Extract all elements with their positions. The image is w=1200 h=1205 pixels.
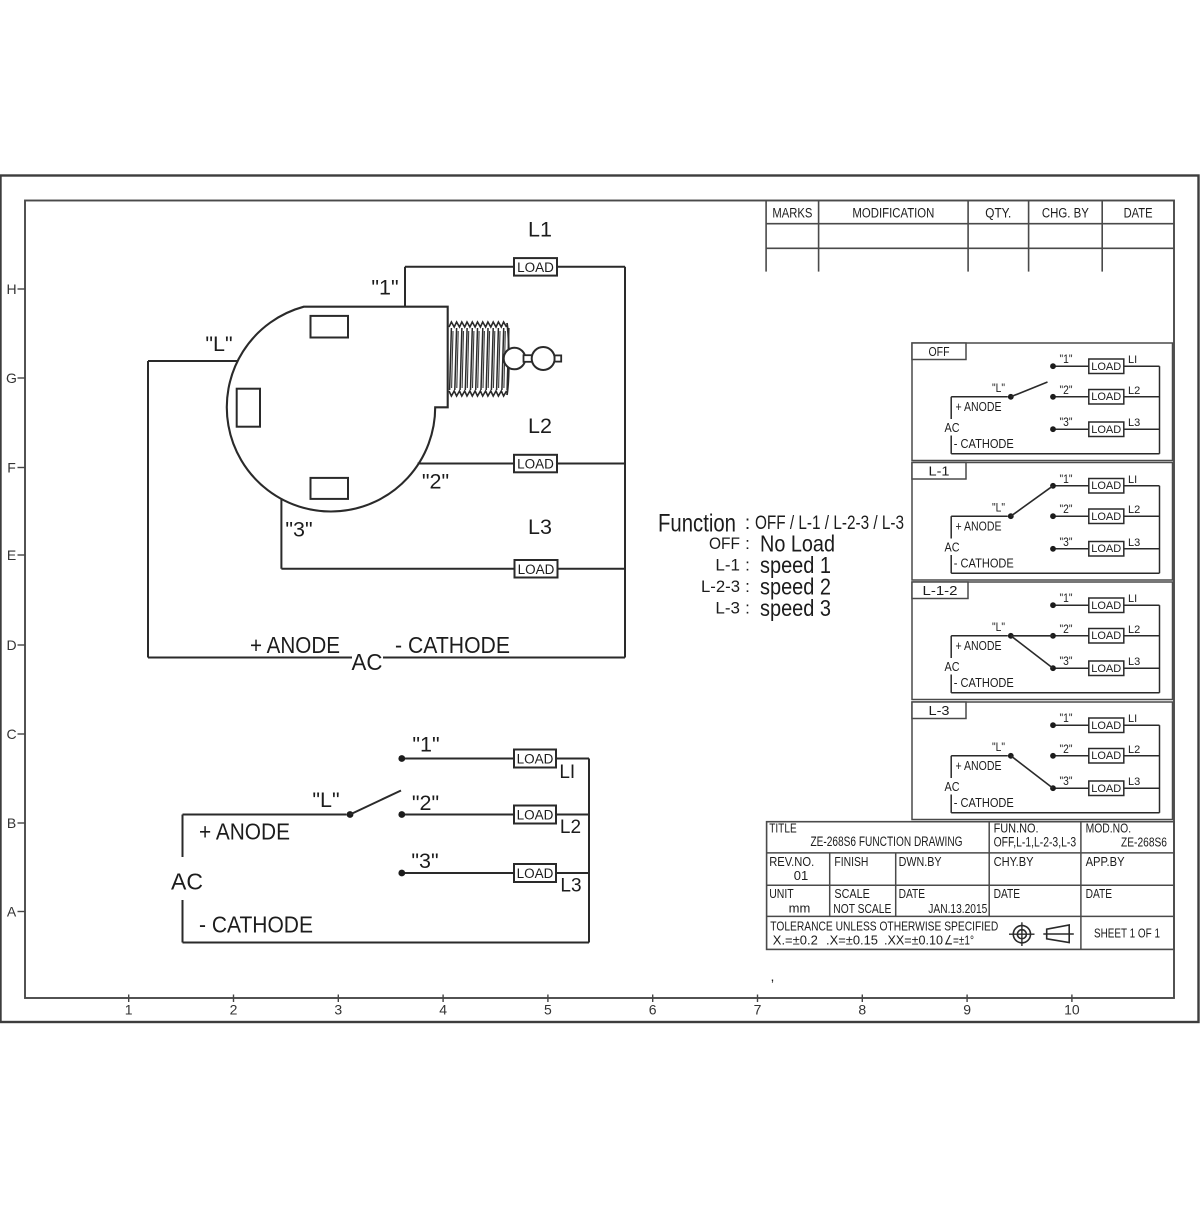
svg-text:APP.BY: APP.BY xyxy=(1086,855,1126,869)
svg-text:mm: mm xyxy=(789,901,811,916)
svg-text:MOD.NO.: MOD.NO. xyxy=(1086,822,1132,836)
svg-text:"L": "L" xyxy=(312,788,339,812)
svg-text:LOAD: LOAD xyxy=(1091,480,1121,492)
svg-text:CHG. BY: CHG. BY xyxy=(1042,205,1089,220)
svg-text:- CATHODE: - CATHODE xyxy=(395,632,510,658)
svg-text::: : xyxy=(745,534,750,553)
svg-text:LOAD: LOAD xyxy=(1091,543,1121,555)
svg-text:DATE: DATE xyxy=(994,887,1021,901)
svg-text:+ ANODE: + ANODE xyxy=(956,638,1002,653)
svg-text:3: 3 xyxy=(334,1002,342,1018)
svg-text:CHY.BY: CHY.BY xyxy=(994,855,1035,869)
svg-text:DWN.BY: DWN.BY xyxy=(899,855,943,869)
svg-text:"2": "2" xyxy=(412,791,439,815)
svg-text:L1: L1 xyxy=(528,218,552,242)
svg-text:L-1: L-1 xyxy=(929,464,950,479)
svg-text:DATE: DATE xyxy=(1086,887,1113,901)
svg-text:NOT SCALE: NOT SCALE xyxy=(833,901,891,916)
svg-text:REV.NO.: REV.NO. xyxy=(769,855,814,869)
svg-text:1: 1 xyxy=(125,1002,133,1018)
svg-text:DATE: DATE xyxy=(899,887,926,901)
svg-text:+ ANODE: + ANODE xyxy=(956,519,1002,534)
svg-text:LI: LI xyxy=(1128,713,1137,725)
svg-text:"1": "1" xyxy=(412,733,439,757)
svg-text:TITLE: TITLE xyxy=(769,822,797,836)
svg-text:+ ANODE: + ANODE xyxy=(199,819,290,845)
svg-text:L2: L2 xyxy=(528,414,552,438)
svg-text::: : xyxy=(745,598,750,617)
svg-text:LI: LI xyxy=(1128,354,1137,366)
svg-text:"2": "2" xyxy=(1060,502,1073,516)
svg-text:LOAD: LOAD xyxy=(517,260,554,275)
svg-text:- CATHODE: - CATHODE xyxy=(199,912,313,938)
svg-text:LOAD: LOAD xyxy=(1091,424,1121,436)
svg-text:QTY.: QTY. xyxy=(985,205,1011,220)
svg-text:speed 3: speed 3 xyxy=(760,595,831,621)
svg-text:+ ANODE: + ANODE xyxy=(250,632,340,658)
svg-text:SCALE: SCALE xyxy=(834,887,870,901)
svg-text:10: 10 xyxy=(1064,1002,1080,1018)
svg-text:LOAD: LOAD xyxy=(1091,663,1121,675)
svg-text:LOAD: LOAD xyxy=(1091,600,1121,612)
svg-text:LI: LI xyxy=(1128,593,1137,605)
svg-text:L-1-2: L-1-2 xyxy=(923,583,958,598)
svg-text:"L": "L" xyxy=(992,740,1005,754)
svg-text:X.=±0.2: X.=±0.2 xyxy=(773,932,818,947)
svg-text:FINISH: FINISH xyxy=(834,855,868,869)
svg-text:OFF: OFF xyxy=(709,534,740,553)
svg-text:L-1: L-1 xyxy=(715,556,740,575)
svg-text:AC: AC xyxy=(352,649,383,675)
svg-text:9: 9 xyxy=(963,1002,971,1018)
svg-text:DATE: DATE xyxy=(1124,205,1153,220)
svg-text:LOAD: LOAD xyxy=(518,562,555,577)
svg-text:"3": "3" xyxy=(1060,415,1073,429)
svg-text:6: 6 xyxy=(649,1002,657,1018)
svg-text:7: 7 xyxy=(754,1002,762,1018)
svg-text:AC: AC xyxy=(945,659,960,674)
svg-text:- CATHODE: - CATHODE xyxy=(954,676,1014,690)
svg-text:L-3: L-3 xyxy=(929,703,950,718)
svg-text:D: D xyxy=(6,637,16,653)
svg-text:L3: L3 xyxy=(1128,417,1140,429)
svg-text:LOAD: LOAD xyxy=(1091,750,1121,762)
svg-text:+ ANODE: + ANODE xyxy=(956,399,1002,414)
svg-text::: : xyxy=(745,556,750,575)
svg-text:5: 5 xyxy=(544,1002,552,1018)
svg-text:G: G xyxy=(6,370,17,386)
svg-text:"3": "3" xyxy=(1060,774,1073,788)
svg-text:01: 01 xyxy=(794,868,808,883)
svg-text:"1": "1" xyxy=(1060,591,1073,605)
svg-text:LOAD: LOAD xyxy=(1091,391,1121,403)
svg-text:E: E xyxy=(7,547,16,563)
svg-text:"1": "1" xyxy=(1060,352,1073,366)
svg-text:AC: AC xyxy=(945,539,960,554)
svg-text:+ ANODE: + ANODE xyxy=(956,758,1002,773)
svg-text:JAN.13.2015: JAN.13.2015 xyxy=(928,901,987,916)
svg-text:L3: L3 xyxy=(1128,776,1140,788)
svg-text:"2": "2" xyxy=(1060,383,1073,397)
svg-text:L3: L3 xyxy=(528,515,552,539)
svg-text:OFF,L-1,L-2-3,L-3: OFF,L-1,L-2-3,L-3 xyxy=(994,834,1077,849)
svg-text:LOAD: LOAD xyxy=(517,866,554,881)
svg-text:OFF: OFF xyxy=(929,344,950,359)
svg-text:LI: LI xyxy=(1128,474,1137,486)
svg-text:LOAD: LOAD xyxy=(1091,720,1121,732)
svg-text:∠=±1°: ∠=±1° xyxy=(944,932,974,947)
svg-text:LOAD: LOAD xyxy=(1091,783,1121,795)
svg-text:L-3: L-3 xyxy=(715,598,740,617)
svg-text:MARKS: MARKS xyxy=(772,205,812,220)
svg-text:AC: AC xyxy=(945,420,960,435)
svg-text:F: F xyxy=(7,460,16,476)
svg-text:- CATHODE: - CATHODE xyxy=(954,556,1014,570)
svg-text:H: H xyxy=(6,281,16,297)
svg-text:"1": "1" xyxy=(371,276,398,300)
svg-text:LI: LI xyxy=(559,762,575,783)
svg-text:C: C xyxy=(6,726,16,742)
svg-text:"L": "L" xyxy=(205,332,232,356)
svg-text:"L": "L" xyxy=(992,501,1005,515)
svg-text:"L": "L" xyxy=(992,381,1005,395)
svg-text:LOAD: LOAD xyxy=(517,457,554,472)
svg-text:L3: L3 xyxy=(1128,656,1140,668)
svg-text:"3": "3" xyxy=(285,518,312,542)
svg-text:"3": "3" xyxy=(1060,535,1073,549)
svg-text:AC: AC xyxy=(945,779,960,794)
svg-text:AC: AC xyxy=(171,869,203,895)
svg-text:UNIT: UNIT xyxy=(769,887,794,901)
svg-text:L2: L2 xyxy=(1128,385,1140,397)
svg-text:4: 4 xyxy=(439,1002,447,1018)
svg-text:L2: L2 xyxy=(1128,504,1140,516)
svg-text:ZE-268S6 FUNCTION DRAWING: ZE-268S6 FUNCTION DRAWING xyxy=(811,834,963,849)
svg-text:.XX=±0.10: .XX=±0.10 xyxy=(884,932,943,947)
svg-text:L2: L2 xyxy=(1128,744,1140,756)
svg-text:SHEET 1 OF 1: SHEET 1 OF 1 xyxy=(1094,926,1160,941)
svg-text:"L": "L" xyxy=(992,620,1005,634)
svg-text:A: A xyxy=(7,904,17,920)
svg-text:MODIFICATION: MODIFICATION xyxy=(852,205,934,220)
svg-text:"2": "2" xyxy=(1060,622,1073,636)
svg-text:"1": "1" xyxy=(1060,472,1073,486)
svg-text:FUN.NO.: FUN.NO. xyxy=(994,822,1039,836)
svg-text:"3": "3" xyxy=(1060,654,1073,668)
svg-text:L-2-3: L-2-3 xyxy=(701,577,740,596)
svg-text:L2: L2 xyxy=(560,817,581,838)
svg-text:- CATHODE: - CATHODE xyxy=(954,437,1014,451)
svg-text:LOAD: LOAD xyxy=(1091,361,1121,373)
svg-text:2: 2 xyxy=(230,1002,238,1018)
svg-text:L2: L2 xyxy=(1128,624,1140,636)
svg-text::: : xyxy=(745,577,750,596)
svg-text:"1": "1" xyxy=(1060,711,1073,725)
svg-text:- CATHODE: - CATHODE xyxy=(954,796,1014,810)
svg-text:"2": "2" xyxy=(1060,742,1073,756)
svg-text:LOAD: LOAD xyxy=(517,808,554,823)
svg-text:ZE-268S6: ZE-268S6 xyxy=(1121,835,1167,850)
svg-text:TOLERANCE UNLESS OTHERWISE SPE: TOLERANCE UNLESS OTHERWISE SPECIFIED xyxy=(770,918,998,933)
svg-text:.X=±0.15: .X=±0.15 xyxy=(826,932,878,947)
svg-text:B: B xyxy=(7,815,16,831)
svg-text:"2": "2" xyxy=(422,470,449,494)
svg-text:8: 8 xyxy=(858,1002,866,1018)
svg-text:L3: L3 xyxy=(560,875,581,896)
svg-text:LOAD: LOAD xyxy=(1091,511,1121,523)
svg-text::: : xyxy=(745,513,750,534)
svg-text:L3: L3 xyxy=(1128,537,1140,549)
svg-text:LOAD: LOAD xyxy=(517,752,554,767)
svg-text:LOAD: LOAD xyxy=(1091,630,1121,642)
svg-text:"3": "3" xyxy=(411,849,438,873)
svg-text:,: , xyxy=(771,968,775,984)
